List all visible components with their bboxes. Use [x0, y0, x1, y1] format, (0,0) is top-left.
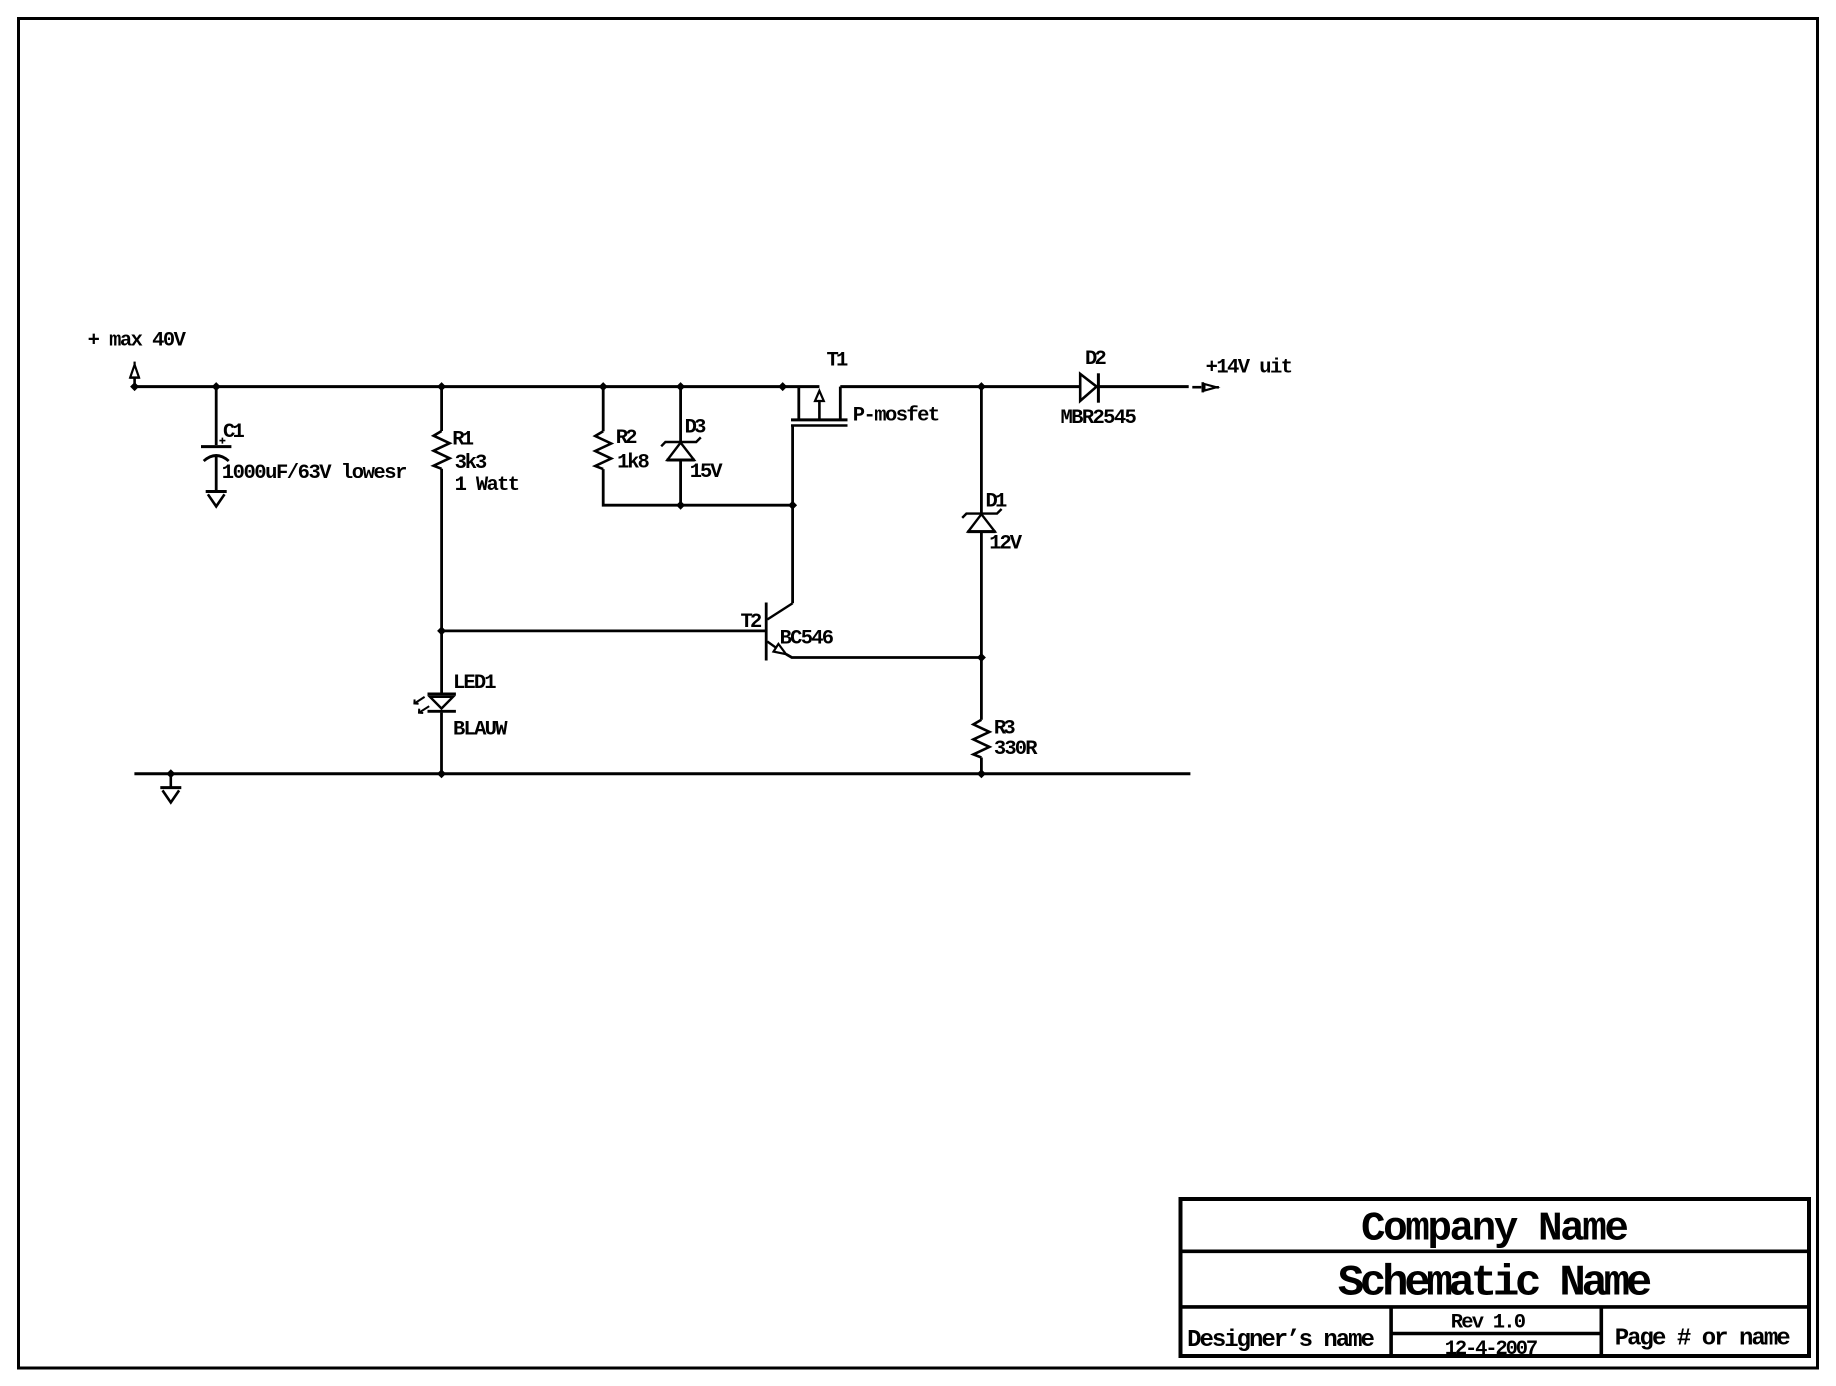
svg-text:R1: R1	[452, 429, 474, 452]
wire: top rail to R2	[602, 387, 605, 432]
LED1 light emission arrows	[414, 697, 429, 713]
wire: bottom rail (ground net)	[134, 772, 1190, 775]
wire: top rail to R1	[440, 387, 443, 431]
junction: input on top rail	[130, 382, 139, 391]
wire: R2 bottom to gate node	[603, 469, 792, 505]
svg-text:MBR2545: MBR2545	[1061, 407, 1137, 430]
junction: gate node	[788, 501, 797, 510]
input port arrow (+ max 40V)	[130, 362, 140, 387]
LED LED1	[428, 694, 456, 774]
junction: T2 emitter on D1-R3 wire	[977, 653, 986, 662]
junction: ground stub on bottom rail	[166, 769, 175, 778]
svg-text:15V: 15V	[690, 461, 723, 484]
wire: R3 to bottom rail	[980, 758, 983, 774]
transistor T1 P-mosfet	[791, 387, 848, 426]
svg-text:BC546: BC546	[780, 628, 835, 651]
transistor T2 BC546	[766, 603, 981, 661]
title block	[1181, 1199, 1810, 1356]
resistor R1	[434, 431, 450, 469]
svg-text:+14V uit: +14V uit	[1206, 356, 1293, 379]
wire: top rail left segment (input to T1 source)	[135, 385, 820, 388]
wire: T1 gate down to T2 collector	[791, 426, 794, 604]
zener diode D1	[962, 387, 1001, 720]
svg-text:12-4-2007: 12-4-2007	[1445, 1338, 1539, 1361]
svg-text:Company Name: Company Name	[1361, 1207, 1629, 1253]
svg-text:D1: D1	[986, 491, 1008, 514]
svg-text:D3: D3	[685, 417, 707, 440]
diode D2 MBR2545	[1080, 373, 1098, 402]
wire: R1 to LED1 anode	[440, 469, 443, 694]
svg-text:Designer’s name: Designer’s name	[1187, 1327, 1375, 1354]
junction: D3 on top rail	[676, 382, 685, 391]
ground (below C1)	[206, 492, 227, 507]
junction: T1 source on top rail	[778, 382, 787, 391]
svg-text:BLAUW: BLAUW	[453, 719, 508, 742]
svg-text:R2: R2	[616, 427, 638, 450]
junction: R1 on top rail	[437, 382, 446, 391]
svg-text:+ max 40V: + max 40V	[88, 329, 187, 352]
junction: R2 on top rail	[599, 382, 608, 391]
svg-text:3k3: 3k3	[455, 452, 488, 475]
svg-text:T1: T1	[827, 350, 849, 373]
junction: R3 on bottom rail	[977, 769, 986, 778]
svg-text:1 Watt: 1 Watt	[455, 474, 520, 497]
wire: top rail T1 drain to D2 anode	[840, 385, 1080, 388]
svg-text:C1: C1	[223, 421, 245, 444]
svg-text:D2: D2	[1085, 348, 1107, 371]
junction: C1 on top rail	[212, 382, 221, 391]
svg-text:1000uF/63V lowesr: 1000uF/63V lowesr	[222, 462, 408, 485]
wire: T2 base to R1-LED1 node	[442, 630, 767, 633]
svg-text:P-mosfet: P-mosfet	[853, 404, 940, 427]
svg-text:Page # or name: Page # or name	[1615, 1325, 1791, 1352]
svg-text:12V: 12V	[989, 533, 1022, 556]
junction: D1 on top rail	[977, 382, 986, 391]
zener diode D3	[661, 387, 701, 506]
svg-text:Schematic Name: Schematic Name	[1338, 1259, 1653, 1309]
wire: top rail D2 cathode to output	[1100, 385, 1189, 388]
junction: D3 anode on gate wire	[676, 501, 685, 510]
resistor R2	[595, 431, 611, 469]
capacitor C1	[201, 387, 231, 491]
output port arrow (+14V uit)	[1192, 382, 1219, 392]
svg-text:1k8: 1k8	[617, 452, 650, 475]
junction: LED1 cathode on bottom rail	[437, 769, 446, 778]
svg-text:LED1: LED1	[453, 672, 497, 695]
svg-text:R3: R3	[994, 717, 1016, 740]
svg-text:330R: 330R	[994, 738, 1038, 761]
svg-text:Rev 1.0: Rev 1.0	[1451, 1311, 1526, 1334]
junction: T2 base wire on R1-LED1 wire	[437, 626, 446, 635]
resistor R3	[973, 720, 989, 758]
ground (bottom rail)	[160, 774, 181, 803]
